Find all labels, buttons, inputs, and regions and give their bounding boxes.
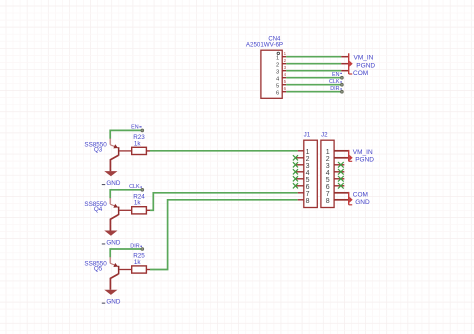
ground symbol below Q3: [104, 171, 117, 176]
GND label below Q5: [102, 303, 105, 304]
svg-text:1k: 1k: [134, 140, 142, 147]
svg-text:2: 2: [276, 63, 279, 69]
svg-text:1: 1: [276, 56, 279, 62]
CN4 pin 1 stub: [282, 56, 286, 58]
transistor Q3 collector lead: [110, 155, 118, 171]
CN4 pin 6 stub: [282, 91, 286, 93]
svg-text:VM_IN: VM_IN: [353, 149, 373, 156]
CN4 pin 4 stub: [282, 77, 286, 79]
svg-text:1k: 1k: [134, 259, 142, 266]
GND label below Q4: [102, 243, 105, 244]
transistor Q4 base bar: [118, 207, 120, 216]
net port bar at J2 pins 1-2: [348, 150, 350, 161]
svg-text:5: 5: [326, 177, 330, 184]
svg-text:EN: EN: [332, 72, 340, 78]
svg-text:3: 3: [276, 70, 279, 76]
J2 pin 5 stub: [334, 178, 344, 180]
resistor R24: [132, 207, 147, 214]
ground symbol below Q4: [104, 231, 117, 236]
J1 pin 7 stub: [298, 192, 304, 194]
connector J2 body: [321, 140, 334, 207]
net port bar at CN4 pins 1-3: [348, 53, 350, 74]
connector CN4 body: [261, 50, 282, 98]
svg-text:6: 6: [306, 184, 310, 191]
wire net DIR from CN4 pin 6: [286, 91, 340, 93]
R25 right stub: [146, 269, 150, 271]
GND label below Q3: [102, 184, 105, 185]
J2 pin 8 stub: [334, 199, 348, 201]
open wire end CLK at CN4: [341, 83, 344, 86]
wire R23 to J1 pin 1: [150, 150, 298, 152]
net port bar at J2 pins 7-8: [348, 192, 350, 205]
open wire end EN at Q3: [141, 129, 144, 132]
R23 right stub: [146, 150, 150, 152]
svg-text:GND: GND: [355, 199, 370, 206]
transistor Q5 emitter lead: [109, 257, 111, 263]
svg-text:5: 5: [306, 177, 310, 184]
svg-text:Q3: Q3: [94, 147, 103, 154]
J1 pin 6 stub: [295, 185, 303, 187]
connector J1 body: [304, 140, 318, 207]
J1 pin 3 stub: [295, 164, 303, 166]
no-connect cross J2 pin 3: [338, 162, 344, 168]
J2 pin 6 stub: [334, 185, 344, 187]
no-connect cross J1 pin 6: [293, 183, 298, 188]
wire net EN at Q3: [110, 130, 141, 138]
svg-text:GND: GND: [106, 180, 120, 187]
transistor Q4 collector lead: [110, 215, 118, 231]
resistor R23: [132, 147, 147, 154]
svg-text:4: 4: [326, 170, 330, 177]
CN4 pin 5 stub: [282, 84, 286, 86]
transistor Q4 base lead: [119, 209, 131, 211]
svg-text:PGND: PGND: [356, 62, 375, 69]
wire net CLK from CN4 pin 5: [286, 84, 340, 86]
svg-text:DIR: DIR: [330, 86, 339, 92]
svg-text:DIR: DIR: [130, 243, 139, 249]
J1 pin 5 stub: [295, 178, 303, 180]
svg-text:2: 2: [326, 156, 330, 163]
open wire end DIR at CN4: [341, 90, 344, 93]
svg-text:GND: GND: [106, 239, 120, 246]
svg-text:PGND: PGND: [355, 157, 374, 164]
open wire end CLK at Q4: [141, 188, 144, 191]
transistor Q5 base lead: [119, 269, 131, 271]
svg-text:5: 5: [276, 84, 279, 90]
svg-text:VM_IN: VM_IN: [354, 55, 374, 62]
net port arrow PGND: [349, 61, 352, 67]
transistor Q3 base lead: [119, 150, 131, 152]
svg-text:CLK: CLK: [129, 184, 140, 190]
wire net DIR at Q5: [110, 249, 141, 257]
wire net CLK at Q4: [110, 190, 141, 198]
J1 pin 2 stub: [295, 157, 303, 159]
CN4 pin 2 stub: [282, 63, 286, 65]
J2 pin 3 stub: [334, 164, 344, 166]
J2 pin 1 stub: [334, 150, 348, 152]
resistor R25: [132, 266, 147, 273]
transistor Q5 emitter arrow: [113, 263, 118, 267]
J2 pin 4 stub: [334, 171, 344, 173]
svg-text:3: 3: [306, 163, 310, 170]
no-connect cross J2 pin 4: [338, 169, 344, 175]
svg-text:Q5: Q5: [94, 265, 103, 272]
wire R25 to J1 pin 8: [150, 200, 298, 270]
transistor Q3 emitter arrow: [113, 144, 118, 148]
open wire end DIR at Q5: [141, 248, 144, 251]
svg-text:J1: J1: [304, 131, 311, 138]
transistor Q3 base bar: [118, 147, 120, 156]
no-connect cross J1 pin 5: [293, 176, 298, 181]
svg-text:1: 1: [326, 149, 330, 156]
svg-text:EN: EN: [131, 125, 139, 131]
svg-text:3: 3: [326, 163, 330, 170]
svg-text:1: 1: [306, 149, 310, 156]
transistor Q3 emitter lead: [109, 139, 111, 145]
transistor Q5 collector lead: [110, 274, 118, 290]
no-connect cross J1 pin 4: [293, 169, 298, 174]
transistor Q5 base bar: [118, 266, 120, 275]
no-connect cross J2 pin 6: [338, 183, 344, 189]
transistor Q4 emitter lead: [109, 198, 111, 204]
svg-text:4: 4: [306, 170, 310, 177]
CN4 pin 3 stub: [282, 70, 286, 72]
ground symbol below Q5: [104, 290, 117, 295]
CN4 pin-1 indicator ring: [277, 52, 279, 54]
no-connect cross J1 pin 2: [293, 155, 298, 160]
no-connect cross J2 pin 5: [338, 176, 344, 182]
svg-text:Q4: Q4: [94, 206, 103, 213]
open wire end EN at CN4: [341, 76, 344, 79]
svg-text:A2501WV-6P: A2501WV-6P: [246, 42, 283, 49]
R24 right stub: [146, 209, 150, 211]
wire R24 to J1 pin 7: [150, 193, 298, 211]
svg-text:8: 8: [306, 198, 310, 205]
transistor Q4 emitter arrow: [113, 204, 118, 208]
svg-text:COM: COM: [353, 191, 368, 198]
svg-text:1k: 1k: [134, 200, 142, 207]
J1 pin 4 stub: [295, 171, 303, 173]
net port arrow PGND at J2: [349, 155, 352, 161]
svg-text:7: 7: [326, 191, 330, 198]
J2 pin 7 stub: [334, 192, 348, 194]
no-connect cross J1 pin 3: [293, 162, 298, 167]
svg-text:COM: COM: [353, 70, 368, 77]
wire net COM from CN4 pin 3: [286, 70, 341, 72]
wire net PGND from CN4 pin 2: [286, 63, 341, 65]
svg-text:2: 2: [306, 156, 310, 163]
J1 pin 8 stub: [298, 199, 304, 201]
net port arrow GND at J2: [349, 197, 352, 203]
svg-text:6: 6: [276, 91, 279, 97]
svg-text:7: 7: [306, 191, 310, 198]
svg-text:GND: GND: [106, 299, 120, 306]
svg-text:CLK: CLK: [329, 79, 340, 85]
J2 pin 2 stub: [334, 157, 348, 159]
svg-text:6: 6: [326, 184, 330, 191]
wire net VM_IN from CN4 pin 1: [286, 56, 341, 58]
svg-text:J2: J2: [321, 131, 328, 138]
svg-text:8: 8: [326, 198, 330, 205]
wire net EN from CN4 pin 4: [286, 77, 340, 79]
J1 pin 1 stub: [298, 150, 304, 152]
